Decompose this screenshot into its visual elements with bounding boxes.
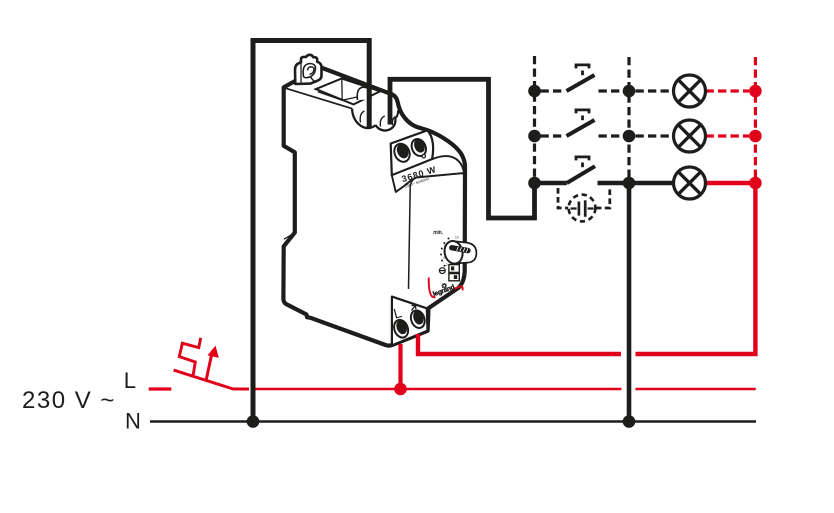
timer module K1 body: [283, 68, 465, 346]
node S3 left: [528, 177, 541, 190]
module top latch: [295, 55, 322, 84]
rating label band 3680 W: [392, 156, 464, 192]
lamp E3: [674, 167, 706, 199]
node red bus row3: [749, 177, 762, 190]
arrow mark: [412, 305, 416, 311]
illuminated push button S4 (dashed): [558, 187, 610, 221]
red accent stripes: [429, 278, 436, 298]
red lamp bus (right, dashed): [754, 57, 757, 183]
lamp wire row2 red: [706, 134, 750, 137]
phase line L segments: [233, 388, 756, 391]
lamp wire row3 black solid: [629, 181, 674, 185]
lamp bus (mid, dashed): [627, 57, 630, 183]
sun icon: [442, 283, 447, 289]
push button S2: [541, 110, 624, 136]
node red bus row2: [749, 130, 762, 143]
phase line L dash: [149, 387, 172, 390]
wire guide inside opening: [357, 87, 371, 100]
terminal screw V2: [409, 137, 429, 159]
lamp return bus solid: [627, 183, 632, 422]
node S2 left: [528, 130, 541, 143]
lamp E2: [674, 120, 706, 152]
lamp wire row2 black: [636, 134, 674, 137]
front panel edges: [409, 173, 463, 289]
module top face front edge: [284, 88, 352, 109]
circuit breaker Q1: [174, 338, 249, 389]
selector icons: [439, 265, 459, 281]
node S1 left: [528, 85, 541, 98]
junction node N-wire1: [247, 415, 260, 428]
red wire module L terminal to phase: [398, 344, 402, 389]
svg-text:10: 10: [455, 236, 459, 240]
dial tick marks: [440, 238, 450, 267]
terminal screw V1: [392, 141, 413, 164]
terminal screw B2: [409, 308, 428, 329]
red wire lamp feed right segment: [636, 183, 756, 354]
svg-text:min.: min.: [433, 230, 443, 236]
svg-text:N: N: [125, 408, 141, 433]
neutral line N: [150, 420, 756, 423]
svg-text:L: L: [124, 368, 136, 393]
svg-text:2: 2: [446, 263, 448, 267]
dial knob: [443, 239, 477, 265]
node red bus row1: [749, 85, 762, 98]
junction node L-module: [394, 383, 407, 396]
red wire module output terminal to lamps: [418, 334, 621, 354]
bottom terminal face: [392, 297, 428, 346]
lamp wire row1 black: [636, 89, 674, 92]
lamp E1: [674, 75, 706, 107]
node lamp bus row1: [623, 85, 636, 98]
svg-text:230 V ~: 230 V ~: [22, 387, 116, 414]
push button S3 (solid, active): [535, 157, 630, 183]
wire from module terminal to push-button bus: [390, 79, 535, 218]
push-button bus (left, dashed): [533, 56, 536, 183]
upper terminal block face: [391, 130, 433, 175]
lamp wire row3 red solid: [706, 181, 756, 185]
wire recess pockets: [352, 109, 376, 129]
junction node N-lamp return: [623, 415, 636, 428]
module top face opening: [316, 79, 380, 105]
module left notch line: [284, 233, 295, 239]
terminal screw B1: [392, 318, 411, 340]
lamp wire row1 red: [706, 89, 750, 92]
push button S1: [541, 65, 624, 91]
node lamp bus row3: [623, 177, 636, 190]
wire from N bus to module top terminal: [253, 41, 369, 422]
node lamp bus row2: [623, 130, 636, 143]
